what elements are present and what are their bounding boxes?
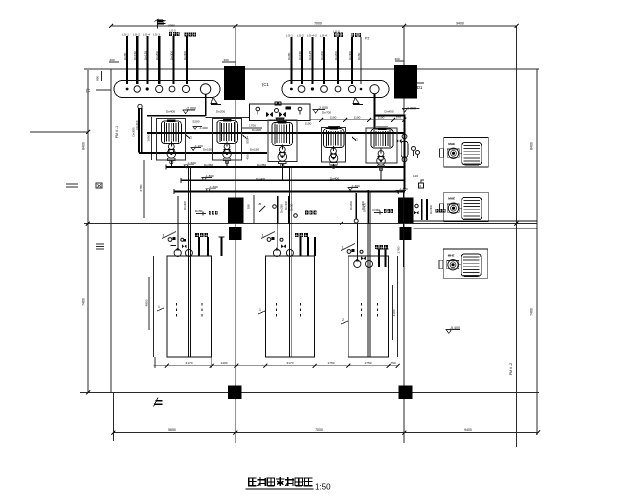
svg-text:1100: 1100: [378, 116, 385, 120]
svg-text:7000: 7000: [315, 428, 323, 432]
cooling tower basin 2: [266, 256, 315, 357]
pipe label -1.600 Dn350 (upper): [184, 165, 194, 168]
dim extension line right of K3: [253, 195, 255, 224]
manifold bold tag: [286, 107, 292, 110]
svg-text:Dn300: Dn300: [169, 51, 173, 60]
valve riser Dn300 to tower 3: [367, 190, 369, 223]
svg-text:Dn350: Dn350: [257, 163, 266, 167]
svg-text:4: 4: [419, 184, 421, 188]
svg-text:9400: 9400: [456, 22, 464, 26]
heat exchanger unit 5: [366, 127, 397, 163]
svg-text:1: 1: [342, 246, 344, 250]
cooling tower basin 1: [167, 256, 212, 357]
pipe label -1.600 right: [348, 188, 358, 191]
feed pipes tower 2: [300, 237, 302, 256]
column K3: [228, 198, 244, 224]
svg-text:4100: 4100: [392, 309, 396, 316]
svg-text:J5: J5: [258, 202, 262, 206]
tower dim line 2170/1400/2170/1750/1750/750: [153, 365, 397, 367]
section arrow 1 at unit 2: [243, 135, 247, 139]
svg-text:-2.000: -2.000: [406, 107, 416, 111]
small valve above tower 1: [181, 238, 184, 241]
column base K5: [229, 227, 242, 240]
svg-text:1: 1: [163, 234, 165, 238]
svg-text:2: 2: [342, 318, 344, 322]
svg-text:Dn50: Dn50: [195, 209, 203, 213]
condenser water drop pipes to tower 3: [367, 192, 369, 358]
heat exchanger unit 4: [322, 126, 346, 162]
svg-text:Dn700: Dn700: [322, 111, 331, 115]
svg-text:1: 1: [356, 138, 358, 142]
pipe run -1.600 Dn750 (y191.5): [174, 191, 405, 193]
water treatment unit B2: [440, 192, 489, 222]
grid line axis-4 vertical (right): [516, 26, 518, 447]
svg-text:Dn125: Dn125: [308, 51, 312, 60]
chiller unit 2: [213, 118, 242, 160]
svg-text:P2: P2: [365, 37, 369, 41]
svg-text:LG-2: LG-2: [133, 33, 140, 37]
section arrow above tower 3: [341, 244, 355, 251]
svg-text:1750: 1750: [365, 361, 372, 365]
svg-text:8400: 8400: [82, 142, 86, 150]
valve riser Dn250 no.2: [288, 196, 290, 223]
svg-text:7460: 7460: [82, 298, 86, 306]
manifold top connectors: [275, 102, 278, 105]
manifold valve V2 (butterfly): [279, 112, 286, 118]
left wall drain symbol: [66, 183, 102, 188]
grid line axis-5 vertical (far right wall): [536, 69, 538, 435]
grid line axis-1 (left wall vertical): [110, 69, 112, 393]
svg-text:1:50: 1:50: [315, 483, 331, 492]
svg-text:D1: D1: [417, 85, 423, 90]
left dimension line 8400 / 7460: [87, 70, 89, 393]
svg-text:Dn300: Dn300: [429, 205, 433, 214]
left wall hatch mark: [96, 244, 104, 249]
bold label 分水器 (left): [169, 32, 172, 36]
svg-text:1750: 1750: [328, 361, 335, 365]
svg-text:Dn300: Dn300: [348, 51, 352, 60]
svg-text:850: 850: [96, 76, 100, 81]
svg-text:570: 570: [396, 116, 401, 120]
thin line to manifold: [206, 117, 250, 119]
condenser water drop pipes to tower 2: [288, 167, 290, 357]
left riser pair Dn350/Dn400 drop: [138, 104, 142, 108]
small valve above tower 3: [360, 250, 363, 253]
feed pipes tower 3: [378, 249, 380, 267]
axis-3 drop pipe to tower 3: [403, 190, 405, 267]
svg-text:Dn150: Dn150: [203, 148, 212, 152]
manifold valve V1 (butterfly): [266, 112, 273, 118]
svg-text:Dn400: Dn400: [166, 110, 175, 114]
column K8: [399, 386, 413, 400]
section mark 2 at tower 3: [341, 321, 348, 324]
pump P2 under unit 2: [223, 142, 232, 164]
svg-text:(C: (C: [86, 88, 90, 93]
dim 1700 Dn200: [242, 127, 263, 129]
svg-text:-2.000: -2.000: [186, 107, 196, 111]
svg-text:Dn400: Dn400: [385, 110, 394, 114]
svg-text:Dn80: Dn80: [287, 52, 291, 60]
section arrow 1 above tower 1: [162, 232, 176, 239]
dim text 400 (right of column K2): [395, 60, 404, 62]
section arrow 1 above tower 2: [261, 232, 275, 239]
svg-text:400: 400: [224, 58, 229, 62]
svg-text:Dn200: Dn200: [349, 201, 353, 210]
valve on axis-3 riser: [397, 139, 402, 143]
svg-text:2170: 2170: [186, 361, 193, 365]
grid line C (top wall): [84, 68, 539, 70]
svg-text:200: 200: [110, 58, 115, 62]
svg-text:Dn50: Dn50: [373, 208, 381, 212]
svg-text:Dn50: Dn50: [357, 52, 361, 60]
grid line E (bottom wall): [80, 392, 539, 394]
svg-text:5650: 5650: [168, 428, 176, 432]
svg-text:LG-1: LG-1: [286, 34, 293, 38]
pipe run y153 from riser: [139, 152, 267, 154]
symbol D4 tag: [419, 183, 424, 188]
collector header H1 (left): [114, 81, 220, 98]
dim 850 left of header: [101, 71, 103, 81]
top dimension line 7000 / 9400: [111, 25, 517, 27]
svg-text:530: 530: [247, 204, 251, 209]
elevation mark -2.000 left: [183, 110, 195, 114]
svg-text:MHE: MHE: [448, 197, 455, 201]
svg-text:MHE: MHE: [448, 253, 455, 257]
svg-text:PM # -1: PM # -1: [115, 126, 119, 138]
svg-text:Dn200: Dn200: [252, 128, 261, 132]
small valve above tower 2: [280, 238, 283, 241]
svg-text:Dn150: Dn150: [298, 51, 302, 60]
valve manifold box: [250, 104, 311, 120]
slope mark near bottom left: [154, 398, 159, 407]
svg-text:-5.400: -5.400: [450, 326, 460, 330]
svg-text:4800: 4800: [145, 299, 149, 306]
riser pipe size labels Dn (left group): [123, 51, 187, 60]
pipe run from H1 to unit 1 zone: [147, 115, 206, 117]
pump stubs to suction headers: [170, 160, 172, 167]
svg-text:Dn400: Dn400: [330, 177, 339, 181]
svg-text:LG-4: LG-4: [143, 33, 150, 37]
svg-text:1400: 1400: [221, 361, 228, 365]
main vertical pipe at axis-3: [403, 115, 405, 189]
svg-text:Dn150: Dn150: [133, 51, 137, 60]
svg-text:Dn50: Dn50: [290, 203, 294, 211]
dim text 200: [109, 61, 119, 63]
svg-text:LG-1: LG-1: [122, 33, 129, 37]
unit dim row 1100/1100/1100/570: [310, 119, 404, 121]
flow flag with 3050: [157, 19, 159, 29]
svg-text:Dn150: Dn150: [250, 148, 259, 152]
svg-text:750: 750: [390, 361, 395, 365]
svg-text:Dn400: Dn400: [363, 203, 367, 212]
cooling tower basin 3: [348, 256, 388, 357]
svg-text:1750: 1750: [397, 246, 401, 253]
svg-text:1100: 1100: [354, 116, 361, 120]
water treatment unit B3: [439, 249, 488, 278]
header H2 support mark: [353, 98, 363, 105]
column K7: [228, 386, 242, 400]
pipe run -1.600 Dn350 (y167): [166, 166, 404, 168]
chilled water risers group LG-1..LG-3 (left): [127, 36, 187, 84]
svg-text:8400: 8400: [530, 142, 534, 150]
column K1: [224, 66, 245, 100]
dim text 400 (left of column K1): [222, 61, 236, 63]
elevation mark -5.400: [446, 330, 460, 334]
svg-text:3050: 3050: [168, 24, 175, 28]
pipe run -1.800 Dn400 (y180): [181, 179, 405, 181]
manifold gauge G1: [256, 107, 260, 111]
svg-text:2780: 2780: [139, 184, 143, 191]
header H1 nozzle circles: [126, 84, 211, 94]
svg-text:-1.600: -1.600: [187, 161, 196, 165]
manifold actuator circle: [275, 109, 279, 113]
bold label above tower 2 feed pipes: [295, 233, 299, 237]
section arrow 1 at unit 5: [352, 137, 356, 141]
svg-text:1100: 1100: [305, 122, 312, 126]
tower 3 inlet nozzle circles: [354, 260, 361, 267]
svg-text:5200: 5200: [193, 120, 200, 124]
feed pipes tower 1: [198, 237, 200, 256]
header H1 support mark: [211, 98, 221, 105]
svg-text:Dn350: Dn350: [204, 163, 213, 167]
header H2 nozzle circles: [290, 85, 379, 94]
gauge circle above tower 1: [168, 238, 172, 242]
bold label above tower 3 feed pipes: [375, 245, 379, 249]
svg-text:1: 1: [190, 136, 192, 140]
feed drop pipe to tower 1 valve group: [177, 196, 179, 249]
grid line axis-3 vertical: [403, 26, 405, 443]
fittings right of column K4: [414, 199, 433, 220]
column K4: [398, 198, 414, 224]
pump P5 under unit 5: [377, 149, 386, 171]
svg-text:110: 110: [413, 174, 418, 178]
tower 1 inlet nozzle circles: [174, 249, 181, 256]
elevation mark -2.000 centre: [313, 110, 325, 114]
pipe pair to right units: [414, 220, 538, 222]
svg-text:7460: 7460: [530, 308, 534, 316]
bold label above tower 1 feed pipes: [195, 233, 199, 237]
pipe label -1.800 at elbow: [396, 191, 406, 194]
svg-text:PM # -2: PM # -2: [509, 363, 513, 375]
feed drop pipe to tower 2 valve group: [276, 196, 278, 249]
manifold gauge G2: [298, 107, 302, 111]
bottom dimension line 5650 / 7000 / 9400: [113, 432, 538, 434]
column K2: [394, 65, 417, 99]
water treatment unit B1: [440, 137, 489, 167]
companion line left of tower 1: [152, 256, 154, 357]
condenser water drop pipes to tower 1: [188, 167, 190, 357]
manifold strainer: [276, 118, 284, 122]
svg-text:7000: 7000: [314, 22, 322, 26]
pipe label -1.200 Dn150: [191, 148, 201, 151]
svg-text:9400: 9400: [464, 428, 472, 432]
svg-text:400: 400: [395, 57, 400, 61]
chiller unit 3: [268, 120, 297, 162]
svg-text:550: 550: [246, 138, 250, 143]
svg-text:-1.600: -1.600: [209, 185, 218, 189]
svg-text:1: 1: [262, 234, 264, 238]
section mark 1 at tower 2: [258, 311, 265, 314]
valve riser Dn250 no.1: [277, 196, 279, 223]
rotated label 2780: [143, 160, 145, 218]
pipe label -1.800 Dn400: [202, 178, 212, 181]
tower 2 inlet nozzle circles: [273, 249, 280, 256]
svg-text:Dn200: Dn200: [155, 51, 159, 60]
svg-text:LG-4: LG-4: [320, 34, 327, 38]
svg-text:Dn200: Dn200: [334, 51, 338, 60]
grid line D (middle): [84, 223, 537, 225]
svg-text:Dn300: Dn300: [183, 51, 187, 60]
gauge circle above tower 2: [267, 238, 271, 242]
svg-text:LG-4-3: LG-4-3: [307, 34, 317, 38]
bold label 分水器 (right): [334, 33, 337, 37]
tower 1 extension lines: [154, 357, 156, 368]
svg-text:-1.800: -1.800: [205, 174, 214, 178]
gauges right of axis-3: [412, 147, 416, 151]
svg-text:Dn400: Dn400: [284, 201, 288, 210]
svg-text:LG-2: LG-2: [297, 34, 304, 38]
pipe run -2.000 Dn700 (y133): [147, 132, 404, 134]
feed drop pipe to tower 3 valve group: [356, 224, 358, 260]
right dimension texts 8400 / 7460: [515, 222, 519, 226]
svg-text:Dn80: Dn80: [123, 52, 127, 60]
svg-text:450: 450: [246, 154, 250, 159]
svg-text:LG-3: LG-3: [153, 33, 160, 37]
gauge circle above tower 3: [347, 250, 351, 254]
rotated dim 4800 left of tower 1: [148, 277, 150, 330]
svg-text:Dn200: Dn200: [320, 51, 324, 60]
elevation mark -2.000 right of column K2: [403, 109, 420, 112]
svg-text:-2.000: -2.000: [318, 106, 328, 110]
pipe label -1.600 Dn750 (lower): [206, 189, 216, 192]
section mark 1 at tower 1: [157, 308, 164, 311]
svg-text:MHE: MHE: [448, 142, 455, 146]
grid line axis-2 vertical: [234, 26, 236, 443]
branch to axis-3 riser: [374, 114, 406, 116]
title 制冷机房大样图 1:50: [248, 478, 257, 486]
svg-text:Dn750: Dn750: [256, 190, 265, 194]
svg-text:1100: 1100: [330, 116, 337, 120]
main chilled supply drop from H2: [373, 94, 375, 130]
mark J5: [259, 206, 265, 212]
pump P1 under unit 1: [167, 142, 176, 164]
bold label 集水器 (right): [352, 33, 355, 37]
valve riser Dn200 to tower 3: [355, 193, 357, 219]
svg-text:1: 1: [259, 308, 261, 312]
tick above tower 1: [171, 244, 177, 246]
svg-text:Dn250: Dn250: [280, 204, 284, 213]
vertical dim 1650 near unit 1: [150, 117, 152, 160]
svg-text:Dn200: Dn200: [216, 110, 225, 114]
svg-text:Dn125: Dn125: [143, 51, 147, 60]
svg-text:-1.200: -1.200: [194, 144, 203, 148]
section arrow 1 at unit 1: [186, 135, 190, 139]
chilled water risers group (right): [291, 37, 361, 84]
rotated dim 4100 right of tower 3: [392, 285, 394, 340]
svg-text:1650: 1650: [147, 134, 151, 141]
pipe from H1 big nozzle down: [205, 94, 207, 116]
chiller unit 1: [157, 119, 186, 161]
svg-text:Dn400: Dn400: [135, 120, 139, 129]
collector header H2 (right): [282, 81, 389, 98]
companion line right of tower 3: [397, 256, 399, 357]
svg-text:Dn400: Dn400: [256, 177, 265, 181]
riser fitting block on axis-3: [401, 142, 408, 158]
pump P3 under unit 3: [278, 145, 287, 167]
riser pipe size labels Dn (right group): [287, 51, 361, 60]
svg-text:2170: 2170: [287, 361, 294, 365]
left wall stub line: [30, 131, 88, 133]
svg-text:1: 1: [158, 305, 160, 309]
pump P4 under unit 4: [329, 146, 338, 168]
column base K6: [400, 227, 412, 240]
svg-text:-1.600: -1.600: [351, 184, 360, 188]
bold label 集水器 (left): [185, 32, 188, 36]
svg-text:-1.000: -1.000: [199, 126, 208, 130]
svg-text:Dn400: Dn400: [183, 201, 187, 210]
svg-text:(C1: (C1: [262, 82, 269, 87]
